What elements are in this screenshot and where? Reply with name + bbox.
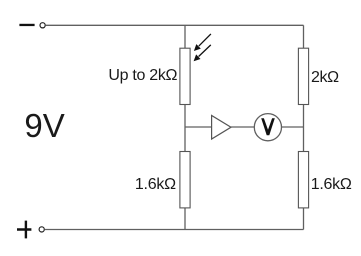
resistor R4 body (1.6kΩ right) [298,152,308,208]
svg-text:1.6kΩ: 1.6kΩ [135,176,176,193]
voltmeter V glyph [261,118,275,135]
svg-text:Up to 2kΩ: Up to 2kΩ [108,67,177,84]
wire: right branch bottom [303,208,305,230]
wire: left branch top [184,25,186,48]
wire: right branch middle [303,104,305,151]
voltmeter M1 circle [254,114,281,141]
light arrow 1 [194,34,211,51]
wire: left branch middle [184,104,186,151]
wire: voltmeter to right branch [282,126,304,128]
wire: right branch top [303,25,305,48]
wire: left branch bottom [184,208,186,230]
battery plus sign [17,221,31,239]
svg-text:2kΩ: 2kΩ [311,69,339,86]
battery minus sign [19,24,34,26]
wire: bridge output left [185,126,212,128]
wire: top rail [45,24,303,26]
wire: buffer to voltmeter [231,126,254,128]
photoresistor R1 body (Up to 2kΩ) [180,48,190,104]
svg-text:1.6kΩ: 1.6kΩ [311,176,352,193]
node: negative terminal [40,23,45,28]
node: positive terminal [39,227,44,232]
svg-text:9V: 9V [24,107,64,144]
op-amp buffer U1 [212,116,231,140]
resistor R3 body (1.6kΩ left) [180,152,190,208]
wire: bottom rail [44,229,303,231]
light arrow 2 [194,45,211,61]
resistor R2 body (2kΩ) [298,48,308,104]
